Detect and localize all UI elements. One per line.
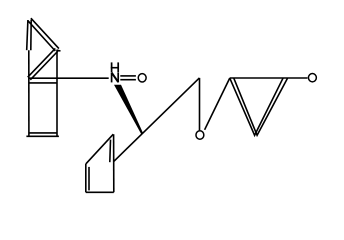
bond left group to N [29, 77, 109, 79]
right ring outer V [230, 78, 283, 135]
double bond B=D line2 [30, 51, 58, 80]
vertical bond from B down [56, 50, 58, 137]
pentagon double L=BL inner [88, 167, 90, 191]
right ring inner V [234, 78, 288, 135]
N=O double bond line1 [120, 75, 136, 77]
label O of N=O [138, 74, 146, 82]
double bond A=C line1 [27, 20, 28, 50]
double bond B=D line1 [28, 48, 56, 77]
double bond A=C line2 [30, 20, 32, 51]
pentagon right vertical T-R1-BR [113, 134, 115, 192]
bond apex P to O2 label [199, 78, 201, 130]
rectangle top edge [29, 82, 57, 84]
N=O double bond line2 [120, 79, 136, 81]
pentagon edge T-L [86, 134, 114, 164]
label O3 right oxygen [308, 74, 316, 82]
pentagon bottom edge [86, 191, 114, 193]
bond O2 label to F [205, 78, 230, 130]
single bond C-D vertical [28, 50, 30, 136]
label H on N [111, 62, 119, 72]
pentagon double T=R1 inner [109, 140, 112, 163]
stub at B [57, 49, 61, 52]
rectangle bottom double line1 [29, 132, 57, 134]
label O2 ester oxygen [196, 131, 204, 139]
double bond A=B line2 [31, 18, 59, 48]
wedge bond N to stereocenter S [114, 85, 143, 135]
label N [112, 72, 119, 82]
double bond A=B line1 [28, 21, 55, 51]
pentagon double L=BL outer [85, 164, 87, 192]
chain bond R1 to apex P [114, 78, 200, 161]
right horizontal F to O3 [230, 77, 308, 79]
rectangle bottom double line2 [26, 135, 59, 137]
